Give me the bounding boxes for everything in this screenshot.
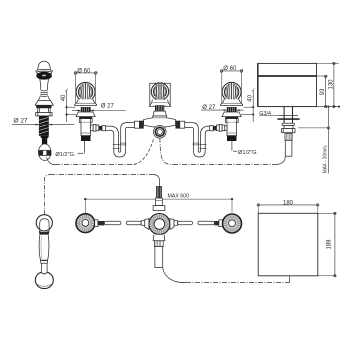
- plan right knob: [223, 214, 242, 233]
- wire: right S-pipe valve to mixer: [185, 123, 210, 157]
- plan hand shower ring: [36, 215, 52, 231]
- svg-text:MAX - 30mm.: MAX - 30mm.: [323, 145, 329, 174]
- dim MAX 600: [84, 193, 233, 223]
- left pipe collar at mixer: [135, 121, 144, 129]
- spout shank tube upper: [284, 107, 292, 126]
- left valve dome skirt: [75, 99, 97, 105]
- spout label G3/4: [259, 111, 279, 117]
- plan mixer diverter knob: [156, 186, 162, 198]
- svg-text:40: 40: [248, 94, 254, 101]
- dim 180: [257, 200, 319, 213]
- hand shower spray face: [37, 72, 52, 79]
- hand shower knurled ring: [36, 105, 51, 108]
- svg-text:130: 130: [328, 79, 334, 90]
- svg-text:188: 188: [327, 239, 333, 250]
- svg-text:MAX 600: MAX 600: [168, 193, 190, 199]
- right valve threaded inlet: [227, 136, 237, 141]
- plan hand shower grip cap: [41, 260, 48, 263]
- mixer knob skirt: [149, 100, 171, 107]
- svg-text:Ø 27: Ø 27: [101, 104, 115, 110]
- plan hand shower bell: [35, 272, 53, 288]
- mixer fluted ball knob: [151, 83, 168, 100]
- hand shower stem collar: [38, 108, 51, 113]
- wire: chain mixer to spout (elevation): [160, 138, 285, 164]
- left valve dim Ø60: [74, 68, 97, 74]
- hand shower hose connector black taper: [41, 136, 49, 144]
- wire: hose chain hand shower to mixer (elevation): [47, 137, 154, 164]
- plan right linkage rod: [170, 219, 223, 230]
- right valve label Ø1/2G: [233, 150, 258, 156]
- spout collar disc: [282, 123, 294, 128]
- plan hand shower grip: [39, 234, 49, 260]
- right valve dome skirt: [221, 99, 243, 105]
- svg-text:40: 40: [61, 94, 67, 101]
- hand shower lower flare: [38, 96, 50, 100]
- svg-text:180: 180: [283, 200, 294, 206]
- plan left knob: [76, 214, 95, 233]
- left valve dim 40: [61, 89, 79, 123]
- svg-text:Ø 60: Ø 60: [77, 68, 91, 74]
- hand shower threaded shank: [39, 116, 49, 136]
- svg-text:Ø1/2"G.: Ø1/2"G.: [55, 152, 75, 158]
- right pipe collar at mixer: [176, 121, 185, 129]
- right valve base flange: [222, 112, 241, 122]
- spout mounting nut: [282, 129, 296, 133]
- hand shower locknut: [36, 113, 52, 116]
- left valve dim Ø27: [72, 104, 126, 112]
- left valve base flange: [76, 112, 95, 122]
- deck line: [258, 106, 340, 108]
- right valve dim Ø27: [201, 105, 243, 111]
- hand shower neck rings: [40, 90, 48, 96]
- hand shower hose olive: [38, 144, 51, 161]
- left valve label Ø1/2G: [55, 152, 83, 158]
- right valve elbow to mixer: [210, 125, 227, 132]
- svg-text:93: 93: [320, 88, 326, 95]
- plan mixer upper collar: [153, 198, 165, 211]
- hand shower handset cap: [38, 61, 51, 70]
- left valve dome handle: [76, 82, 95, 101]
- wire: left S-pipe valve to mixer: [106, 123, 135, 157]
- right valve knurled band: [227, 107, 237, 112]
- plan left linkage rod: [95, 219, 149, 230]
- left valve elbow to mixer: [91, 125, 106, 132]
- right valve extension lines: [222, 72, 242, 104]
- right valve tailpiece: [227, 122, 237, 135]
- right valve dim Ø60: [220, 66, 243, 72]
- wire: hose chain hand shower (plan): [44, 175, 159, 215]
- spout washers: [278, 116, 300, 120]
- left valve knurled band: [81, 107, 91, 112]
- spout block body: [258, 63, 317, 106]
- mixer knob square profile: [150, 83, 170, 106]
- plan mixer outlet tube: [154, 241, 163, 268]
- left valve extension lines: [76, 74, 96, 104]
- dim 130: [317, 62, 339, 107]
- left valve inlet drop line: [84, 141, 86, 153]
- mixer outlet boss: [154, 126, 167, 139]
- svg-text:Ø1/2"G.: Ø1/2"G.: [238, 150, 258, 156]
- plan hand shower neck: [41, 263, 47, 272]
- mixer body with side cones: [144, 116, 176, 127]
- spout lower tube: [285, 140, 292, 156]
- svg-text:Ø 27: Ø 27: [14, 119, 29, 125]
- right valve dome handle: [222, 82, 241, 101]
- hand shower base flange: [35, 100, 53, 105]
- plan hand shower collar: [39, 231, 49, 235]
- plan mixer body circle: [149, 214, 170, 235]
- dim 93: [317, 75, 328, 107]
- mixer knurled stem: [155, 105, 164, 111]
- svg-text:G3/4: G3/4: [259, 111, 271, 117]
- wire: chain mixer outlet to spout square (plan): [163, 268, 290, 283]
- right valve dim 40: [241, 89, 255, 123]
- hand shower collar lip: [36, 69, 53, 74]
- left valve tailpiece: [81, 122, 91, 135]
- dim 188: [318, 212, 337, 277]
- dim label Ø27 hand shower: [12, 119, 74, 126]
- plan spout square: [258, 213, 318, 275]
- plan mixer bottom collar: [153, 235, 165, 241]
- left valve threaded inlet: [81, 136, 91, 141]
- right valve inlet drop line: [231, 141, 233, 151]
- mixer bonnet: [153, 111, 167, 116]
- hand shower neck: [40, 79, 49, 90]
- spout threaded shank: [285, 134, 292, 141]
- dim MAX 30mm: [298, 107, 330, 174]
